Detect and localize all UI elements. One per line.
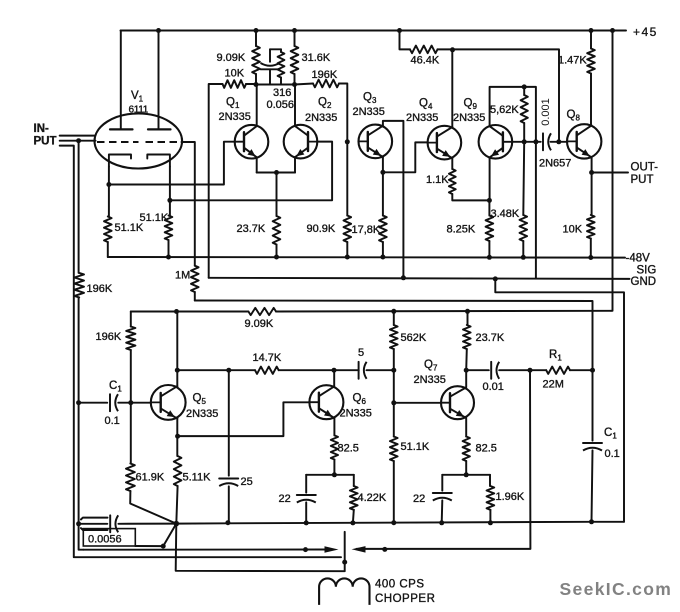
wire cap to Q8 base xyxy=(551,139,568,144)
node IN-PUT label xyxy=(34,123,57,148)
label 2N335 Q6 xyxy=(340,408,372,420)
tube V1 left grid xyxy=(97,141,139,143)
label 10K xyxy=(225,68,245,80)
svg-text:5,62K: 5,62K xyxy=(490,104,519,116)
label R1 xyxy=(549,349,562,363)
label 2N335 Q5 xyxy=(186,408,218,420)
wire Q5 emitter xyxy=(175,418,180,456)
svg-text:2N335: 2N335 xyxy=(453,112,485,124)
label 14.7K xyxy=(253,352,282,364)
wire input line upper xyxy=(60,135,95,137)
node GND label xyxy=(631,276,657,288)
label 1M xyxy=(175,270,190,282)
resistor 17.8K xyxy=(379,172,387,259)
resistor 5.62K xyxy=(521,87,528,144)
svg-text:51.1K: 51.1K xyxy=(401,441,430,453)
label 22 (Q6) xyxy=(279,493,291,505)
transistor Q6 xyxy=(309,385,343,419)
wire collector link xyxy=(256,84,295,86)
svg-text:22: 22 xyxy=(279,493,291,505)
transistor Q1 xyxy=(235,125,269,159)
svg-text:10K: 10K xyxy=(225,68,245,80)
wire Q6 collector xyxy=(333,370,335,386)
resistor 4.22K xyxy=(350,475,358,526)
wire chopper signal line xyxy=(83,547,324,552)
svg-text:22: 22 xyxy=(413,493,425,505)
resistor 10K (Q1 base bias) xyxy=(209,80,256,278)
wire Q9 base to cap xyxy=(512,141,541,143)
wire Q7 collector xyxy=(465,370,467,386)
wire V1 grid to 1M xyxy=(182,142,195,266)
tube V1 right cathode xyxy=(147,155,170,167)
capacitor 22 (Q6) xyxy=(297,475,316,526)
capacitor 0.01 xyxy=(466,362,546,379)
label 46.4K xyxy=(411,55,440,67)
svg-text:1.96K: 1.96K xyxy=(496,491,525,503)
wire Q3 collector to gnd xyxy=(383,121,406,280)
label 0.01 xyxy=(483,381,504,393)
svg-text:PUT: PUT xyxy=(34,136,57,148)
label 10K (output) xyxy=(563,224,583,236)
wire box stub xyxy=(135,524,176,549)
label CHOPPER xyxy=(375,593,435,605)
wire -48V bus xyxy=(108,256,625,259)
svg-text:CHOPPER: CHOPPER xyxy=(375,593,435,605)
resistor 196K (lower) xyxy=(126,312,135,403)
svg-text:2N657: 2N657 xyxy=(539,158,571,170)
transistor Q7 xyxy=(441,386,474,419)
svg-text:SeekIC.com: SeekIC.com xyxy=(560,579,673,599)
label 51.1K (lower) xyxy=(401,441,430,453)
svg-text:+45: +45 xyxy=(633,25,658,39)
resistor 8.25K xyxy=(486,200,494,259)
label 196K (input line) xyxy=(87,283,113,295)
svg-text:1.47K: 1.47K xyxy=(558,55,587,67)
wire Q8 emitter to output xyxy=(589,157,594,215)
svg-text:2N335: 2N335 xyxy=(340,408,372,420)
label 400 CPS xyxy=(375,579,425,591)
label Q1 2N335 xyxy=(219,111,251,123)
label 5,62K xyxy=(490,104,519,116)
resistor 90.9K xyxy=(344,139,352,259)
label Q3 xyxy=(363,92,377,106)
wire bottom rail xyxy=(174,521,625,527)
svg-text:6111: 6111 xyxy=(129,105,149,116)
label 9.09K xyxy=(217,52,246,64)
svg-text:3.48K: 3.48K xyxy=(491,208,520,220)
label 82.5 (Q6) xyxy=(338,443,359,455)
svg-text:2N335: 2N335 xyxy=(186,408,218,420)
resistor 1.47K xyxy=(587,31,595,126)
capacitor C1 0.1 (output) xyxy=(583,370,602,524)
resistor 46.4K xyxy=(400,31,456,54)
label 562K xyxy=(401,332,427,344)
label Q2 2N335 xyxy=(305,112,337,124)
label 22 (Q7) xyxy=(413,493,425,505)
svg-text:5.11K: 5.11K xyxy=(183,472,212,484)
resistor 82.5 (Q7 emitter) xyxy=(463,419,470,478)
wire Q6 emitter network xyxy=(306,474,354,476)
svg-text:316: 316 xyxy=(273,87,291,99)
wire Q3 emitter xyxy=(380,156,385,174)
wire lower rail xyxy=(131,309,611,314)
svg-text:IN-: IN- xyxy=(34,123,50,135)
capacitor 0.001 xyxy=(543,133,551,150)
resistor 562K xyxy=(390,311,398,372)
label 2N335 Q7 xyxy=(414,374,446,386)
transistor Q3 xyxy=(359,125,393,159)
label 1.1K xyxy=(426,174,449,186)
tube V1 right grid xyxy=(146,141,181,143)
capacitor 5 xyxy=(359,362,394,379)
capacitor 0.056 xyxy=(261,49,280,84)
label 0.1 (output) xyxy=(605,448,620,460)
resistor 51.1K (left cathode) xyxy=(104,217,112,243)
label 9.09K (lower) xyxy=(245,318,274,330)
label 0.056 xyxy=(267,99,295,111)
label 0.1 (coupling) xyxy=(105,415,120,427)
label 23.7K (lower) xyxy=(476,332,505,344)
svg-text:14.7K: 14.7K xyxy=(253,352,282,364)
label Q3 2N335 xyxy=(353,106,385,118)
resistor 51.1K (lower) xyxy=(390,437,398,526)
svg-text:4.22K: 4.22K xyxy=(358,492,387,504)
resistor 5.11K xyxy=(174,456,182,524)
label Q7 xyxy=(424,359,438,373)
label 1.47K xyxy=(558,55,587,67)
label 17,8K xyxy=(352,224,381,236)
svg-text:9.09K: 9.09K xyxy=(245,318,274,330)
label 196K (interstage) xyxy=(312,69,338,81)
wire feedback line (1M to R1) xyxy=(195,301,593,371)
wire V1 right cathode to node xyxy=(167,167,172,216)
resistor 14.7K xyxy=(255,367,279,374)
label Q8 2N657 xyxy=(539,158,571,170)
label 82.5 (Q7) xyxy=(476,443,497,455)
label 90.9K xyxy=(307,223,336,235)
svg-text:61.9K: 61.9K xyxy=(136,472,165,484)
svg-text:562K: 562K xyxy=(401,332,427,344)
svg-text:22M: 22M xyxy=(543,379,564,391)
wire right vertical from +45 xyxy=(611,31,613,311)
svg-text:0.056: 0.056 xyxy=(267,99,295,111)
svg-text:0.1: 0.1 xyxy=(105,415,120,427)
svg-text:196K: 196K xyxy=(96,331,122,343)
label 4.22K xyxy=(358,492,387,504)
label Q8 xyxy=(567,109,581,123)
label 61.9K xyxy=(136,472,165,484)
wire Q2 emitter xyxy=(294,157,296,172)
tube V1 left cathode xyxy=(109,155,131,167)
svg-text:400 CPS: 400 CPS xyxy=(375,579,425,591)
wire Q9 emitter xyxy=(489,157,491,200)
svg-text:196K: 196K xyxy=(312,69,338,81)
wire Q5 collector xyxy=(175,312,180,387)
resistor 82.5 (Q6 emitter) xyxy=(331,418,338,477)
resistor 196K (input line) xyxy=(74,273,84,298)
label 0.0056 box xyxy=(83,529,135,546)
label 31.6K xyxy=(302,52,331,64)
svg-text:0.1: 0.1 xyxy=(605,448,620,460)
svg-text:2N335: 2N335 xyxy=(406,112,438,124)
tube V1 right plate xyxy=(148,31,171,130)
svg-text:2N335: 2N335 xyxy=(414,374,446,386)
wire 14.7K line xyxy=(177,368,358,373)
label 8.25K xyxy=(447,224,476,236)
wire Q6 base xyxy=(178,402,310,436)
wire Q9 base node to gnd xyxy=(535,142,537,278)
resistor 51.1K (right cathode) xyxy=(165,216,173,241)
capacitor C1 0.1 (input coupling) xyxy=(76,394,150,411)
svg-text:9.09K: 9.09K xyxy=(217,52,246,64)
svg-text:2N335: 2N335 xyxy=(219,111,251,123)
label 3.48K xyxy=(491,208,520,220)
svg-text:8.25K: 8.25K xyxy=(447,224,476,236)
resistor R1 22M xyxy=(546,367,595,374)
wire Q7 emitter network xyxy=(442,474,490,476)
resistor 61.9K xyxy=(126,403,176,524)
svg-text:0.01: 0.01 xyxy=(483,381,504,393)
label Q4 xyxy=(419,98,433,112)
resistor 196K (interstage) xyxy=(295,80,348,142)
resistor 1M xyxy=(191,266,199,292)
svg-text:10K: 10K xyxy=(563,224,583,236)
label C1 (output) xyxy=(604,427,617,441)
svg-text:OUT-: OUT- xyxy=(631,162,659,174)
chopper right arrow xyxy=(325,546,339,553)
label V1 xyxy=(131,90,144,104)
svg-text:23.7K: 23.7K xyxy=(237,223,266,235)
wire emitter join xyxy=(257,170,295,175)
label 5 xyxy=(358,347,364,359)
wire Q1 collector xyxy=(254,82,259,126)
label 316 xyxy=(273,87,291,99)
label 0.001 xyxy=(540,98,552,126)
wire 0.0056 shield bracket xyxy=(81,518,108,530)
label 51.1K (right) xyxy=(140,212,169,224)
node SIG label xyxy=(637,265,657,277)
svg-text:GND: GND xyxy=(631,276,657,288)
transistor Q5 xyxy=(151,385,186,420)
transistor Q8 xyxy=(567,124,601,158)
label 22M xyxy=(543,379,564,391)
wire input shield xyxy=(60,146,341,558)
resistor 31.6K xyxy=(291,31,299,85)
wire 51.1K right to -48V xyxy=(166,240,171,260)
resistor 1.96K xyxy=(487,475,495,526)
wire gnd offshoot to bottom right xyxy=(493,276,624,521)
svg-text:2N335: 2N335 xyxy=(305,112,337,124)
label Q5 xyxy=(193,393,207,407)
svg-text:25: 25 xyxy=(241,476,253,488)
svg-text:0.001: 0.001 xyxy=(540,98,552,126)
wire right cathode to Q2 base xyxy=(170,142,332,201)
wire input center conductor down xyxy=(78,141,80,403)
label 51.1K (left) xyxy=(115,222,144,234)
label 1.96K xyxy=(496,491,525,503)
label 196K (lower) xyxy=(96,331,122,343)
svg-text:1.1K: 1.1K xyxy=(426,174,449,186)
wire Q3 emitter to Q4 base xyxy=(383,142,428,172)
node +45 label xyxy=(633,25,658,39)
svg-text:-48V: -48V xyxy=(626,253,651,265)
svg-text:1M: 1M xyxy=(175,270,190,282)
wire Q2 collector xyxy=(292,82,297,126)
transistor Q4 xyxy=(428,126,462,160)
svg-text:PUT: PUT xyxy=(631,174,654,186)
wire Q7 base line xyxy=(391,370,441,436)
label 5.11K xyxy=(183,472,212,484)
label Q1 xyxy=(226,97,240,111)
watermark SeekIC.com xyxy=(560,579,673,599)
svg-text:31.6K: 31.6K xyxy=(302,52,331,64)
wire input center conductor lower xyxy=(79,403,84,550)
wire Q1 emitter xyxy=(256,157,258,172)
capacitor 25 xyxy=(219,370,238,525)
label 6111 xyxy=(129,105,149,116)
svg-text:SIG: SIG xyxy=(637,265,657,277)
transistor Q2 xyxy=(284,125,318,159)
label 23.7K xyxy=(237,223,266,235)
resistor 23.7K (lower) xyxy=(463,311,471,372)
tube V1 left plate xyxy=(110,31,133,130)
label Q2 xyxy=(318,97,332,111)
wire SIG GND bus xyxy=(209,278,630,279)
wire R1 node to chopper arm xyxy=(357,370,531,552)
wire input line center xyxy=(60,138,96,143)
svg-text:23.7K: 23.7K xyxy=(476,332,505,344)
wire 51.1K to -48V xyxy=(107,242,109,257)
wire 1M to feedback line xyxy=(194,292,196,301)
label C1 (coupling) xyxy=(109,380,122,394)
node OUT-PUT label xyxy=(631,162,659,187)
label Q9 xyxy=(464,98,478,112)
chopper left arrow xyxy=(352,546,366,553)
svg-text:196K: 196K xyxy=(87,283,113,295)
node -48V label xyxy=(626,253,651,265)
label 25 xyxy=(241,476,253,488)
tube V1 envelope xyxy=(95,114,183,169)
resistor 3.48K xyxy=(520,142,528,260)
resistor 316 xyxy=(270,49,284,84)
label Q4 2N335 xyxy=(406,112,438,124)
resistor 10K (output) xyxy=(587,215,595,260)
svg-text:82.5: 82.5 xyxy=(476,443,497,455)
svg-text:82.5: 82.5 xyxy=(338,443,359,455)
label Q9 2N335 xyxy=(453,112,485,124)
svg-text:5: 5 xyxy=(358,347,364,359)
resistor 9.09K xyxy=(252,31,260,85)
resistor 9.09K (lower rail) xyxy=(248,308,276,315)
wire 46.4K to Q8 base xyxy=(453,49,560,141)
svg-text:2N335: 2N335 xyxy=(353,106,385,118)
wire junction to chopper bar xyxy=(176,524,348,572)
resistor 1.1K (Q4 emitter) xyxy=(449,158,492,203)
chopper coil xyxy=(319,578,369,605)
wire +45 supply rail xyxy=(121,28,627,33)
svg-text:0.0056: 0.0056 xyxy=(88,534,122,546)
resistor 23.7K (pair tail) xyxy=(273,173,281,260)
svg-text:90.9K: 90.9K xyxy=(307,223,336,235)
wire output stub xyxy=(592,172,628,174)
svg-text:51.1K: 51.1K xyxy=(140,212,169,224)
transistor Q9 xyxy=(479,125,513,159)
svg-text:17,8K: 17,8K xyxy=(352,224,381,236)
svg-text:46.4K: 46.4K xyxy=(411,55,440,67)
capacitor 22 (Q7) xyxy=(433,475,452,526)
capacitor 0.0056 xyxy=(76,515,176,532)
wire Q9 collector loop xyxy=(490,84,539,144)
wire left cathode to Q1 base xyxy=(109,142,235,185)
wire V1 left cathode to node xyxy=(106,167,111,217)
wire Q4 collector xyxy=(451,50,453,128)
label Q6 xyxy=(353,393,367,407)
